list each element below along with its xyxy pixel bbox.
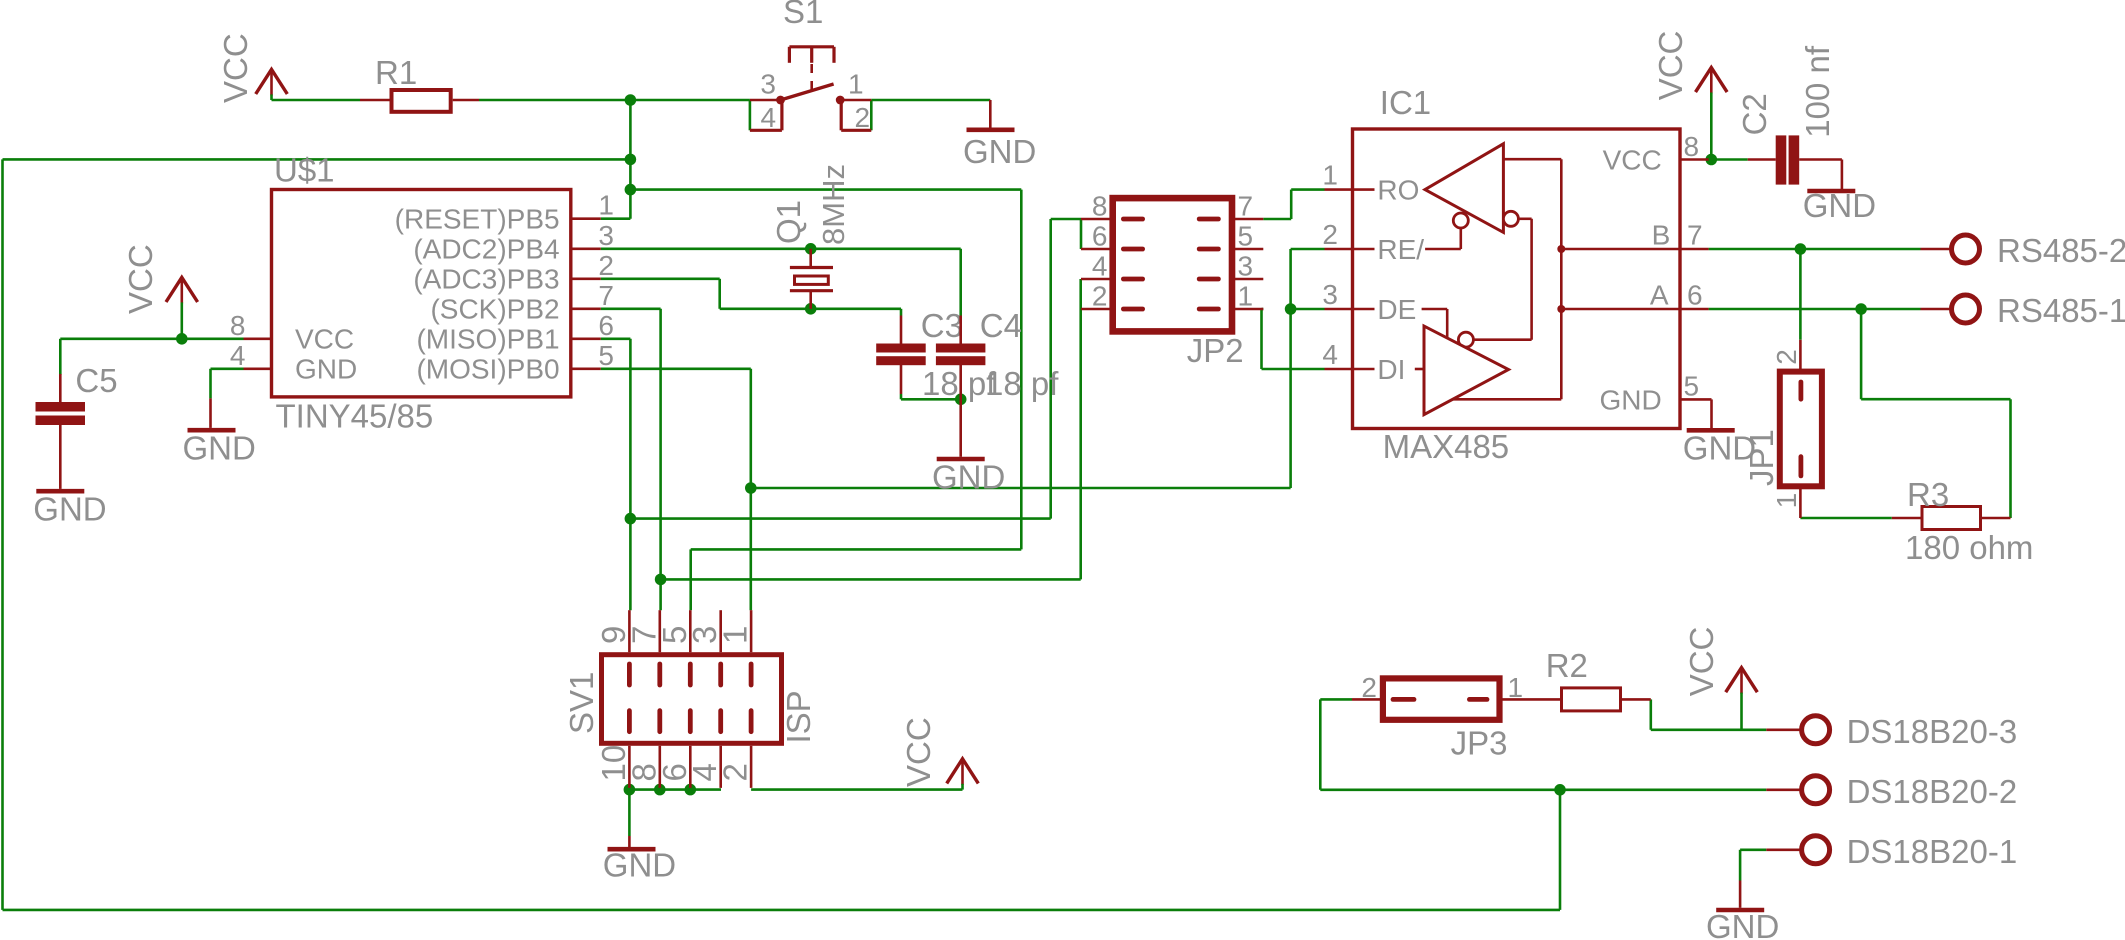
wire bottom riser x1560 (1559, 790, 1562, 910)
svg-text:2: 2 (855, 102, 871, 133)
ground C3 C4 (959, 399, 962, 457)
wire PB2 SCK down (601, 307, 661, 310)
MAX485 receiver triangle (1425, 144, 1503, 233)
MAX485 DI link (1415, 368, 1424, 371)
wire RE DE vertical (1289, 249, 1292, 488)
pad DS18B20-1 (1766, 848, 1801, 851)
wire MOSI row y488 to RE/DE (751, 487, 1291, 490)
svg-text:1: 1 (1771, 493, 1802, 509)
junction ISP gnd 3 (685, 784, 697, 796)
wire C3 bottom to GND junction (900, 394, 903, 399)
svg-text:GND: GND (963, 133, 1036, 170)
svg-text:GND: GND (295, 354, 357, 385)
svg-text:6: 6 (598, 310, 614, 341)
wire U$1 pin4 to GND (211, 367, 244, 370)
SV1 bottom pin x629 (628, 746, 631, 788)
svg-text:8: 8 (1092, 191, 1108, 222)
svg-text:3: 3 (1322, 279, 1338, 310)
SV1 top pin x720 (719, 610, 722, 652)
svg-text:MAX485: MAX485 (1383, 428, 1510, 465)
svg-text:ISP: ISP (780, 690, 817, 743)
wire ISP pin2 to VCC (751, 788, 962, 791)
wire R2 to VCC DS3 row (1650, 699, 1653, 729)
svg-text:5: 5 (598, 340, 614, 371)
ground S1 (989, 100, 992, 128)
jumper JP3 (1352, 698, 1383, 701)
junction A (1855, 303, 1867, 315)
wire B net to RS485-2 (1709, 248, 1921, 251)
U$1 left pin stubs (244, 337, 272, 340)
svg-text:GND: GND (1803, 187, 1876, 224)
svg-text:5: 5 (1684, 371, 1700, 402)
svg-text:DS18B20-1: DS18B20-1 (1847, 833, 2018, 870)
junction crystal bottom (805, 303, 817, 315)
wire RESET to ISP pin5 (689, 549, 692, 610)
svg-text:R1: R1 (375, 54, 417, 91)
VCC symbol 3 (1696, 68, 1728, 93)
wire VCC2 to U$1 pin8 (60, 337, 243, 340)
SV1 bottom pin x659 (658, 746, 661, 788)
svg-text:GND: GND (1599, 384, 1661, 415)
svg-text:VCC: VCC (217, 33, 254, 103)
jumper JP1 (1799, 340, 1802, 372)
switch S1 (789, 45, 834, 48)
junction ISP gnd 2 (654, 784, 666, 796)
svg-text:2: 2 (1322, 219, 1338, 250)
svg-text:R3: R3 (1907, 476, 1949, 513)
JP2 left pin y249 (1081, 248, 1113, 251)
MAX485 driver triangle (1424, 326, 1509, 415)
junction top at x630 (625, 94, 637, 106)
wire VCC to R1 (272, 99, 361, 102)
junction C3 C4 GND (955, 394, 967, 406)
wire SCK row y579 to JP2 4/2 (661, 578, 1081, 581)
wire U$1 pin1 stub join (601, 217, 631, 220)
wire left long net y159 (3, 158, 631, 161)
junction crystal top (805, 243, 817, 255)
wire JP2 pin8-pin6 tie (1080, 219, 1083, 249)
wire crystal bottom row (720, 307, 901, 310)
svg-text:SV1: SV1 (563, 672, 600, 734)
wire JP2 pins8-6 vertical (1049, 219, 1052, 519)
svg-text:1: 1 (1322, 160, 1338, 191)
wire JP2 pins4-2 vertical (1079, 279, 1082, 579)
svg-text:GND: GND (603, 847, 676, 884)
SV1 bottom pin x751 (750, 746, 753, 788)
wire A loop to R3 (1860, 309, 1863, 399)
svg-text:C5: C5 (75, 362, 117, 399)
svg-text:RS485-2: RS485-2 (1997, 232, 2125, 269)
svg-text:R2: R2 (1546, 647, 1588, 684)
svg-text:DS18B20-2: DS18B20-2 (1847, 773, 2018, 810)
JP2 right pin y279 (1232, 278, 1263, 281)
svg-text:1: 1 (848, 69, 864, 100)
svg-text:2: 2 (598, 250, 614, 281)
MAX485 left stub y369 (1325, 368, 1353, 371)
svg-text:DI: DI (1377, 354, 1405, 385)
wire B to JP1 pin2 (1799, 249, 1802, 340)
svg-text:Q1: Q1 (770, 200, 807, 244)
wire MISO row y518 to JP2 8/6 (630, 517, 1050, 520)
MAX485 left stub y309 (1325, 308, 1353, 311)
svg-text:B: B (1652, 220, 1671, 251)
svg-text:5: 5 (1238, 221, 1254, 252)
connector JP2 (1113, 198, 1232, 331)
MAX485 internal dot B (1557, 245, 1565, 253)
VCC symbol 1 (256, 69, 288, 94)
SV1 top pin x629 (628, 610, 631, 652)
junction B (1795, 243, 1807, 255)
IC U$1 TINY45/85 (272, 190, 571, 397)
JP2 right pin y309 (1232, 308, 1263, 311)
svg-text:C4: C4 (980, 307, 1022, 344)
svg-text:A: A (1650, 280, 1669, 311)
MAX485 left stub y249 (1325, 248, 1353, 251)
JP2 left pin y279 (1081, 278, 1113, 281)
wire S1 pin2 to GND (871, 99, 990, 102)
MAX485 DE link (1422, 308, 1448, 311)
svg-text:GND: GND (33, 491, 106, 528)
svg-text:JP2: JP2 (1187, 332, 1244, 369)
MAX485 interior pin dashes (1353, 188, 1375, 191)
wire DS18B20-2 row (1320, 788, 1766, 791)
crystal Q1 (809, 249, 812, 267)
ground C2 (1807, 189, 1855, 194)
wire RESET vertical x630 (629, 100, 632, 219)
svg-text:VCC: VCC (1652, 31, 1689, 101)
wire RESET y190 to x1021 (630, 188, 1021, 191)
svg-text:6: 6 (1687, 280, 1703, 311)
junction MAX485 VCC (1706, 154, 1718, 166)
JP2 left pin y219 (1081, 218, 1113, 221)
IC1 MAX485 (1353, 129, 1681, 429)
ground DS18B20 (1739, 881, 1742, 908)
svg-text:2: 2 (1092, 281, 1108, 312)
ground U$1 pin4 (209, 398, 212, 428)
svg-text:JP1: JP1 (1743, 429, 1780, 486)
JP2 left pin y309 (1081, 308, 1113, 311)
JP2 right pin y219 (1232, 218, 1263, 221)
VCC symbol 5 DS18B20 (1726, 668, 1758, 693)
junction DS2 (1554, 784, 1566, 796)
MAX485 A line (1561, 308, 1680, 311)
resistor R1 (360, 99, 390, 102)
svg-text:VCC: VCC (900, 717, 937, 787)
svg-text:(RESET)PB5: (RESET)PB5 (395, 204, 560, 235)
svg-text:1: 1 (598, 190, 614, 221)
svg-text:8: 8 (230, 310, 246, 341)
U$1 right pin stub y338 (571, 337, 601, 340)
U$1 right pin stub y248 (571, 248, 601, 251)
MAX485 left stub y189 (1325, 188, 1353, 191)
wire MAX485 VCC node (1709, 158, 1748, 161)
wire RESET row y549 (691, 548, 1022, 551)
svg-text:RO: RO (1377, 175, 1419, 206)
svg-text:TINY45/85: TINY45/85 (276, 398, 434, 435)
VCC symbol 4 ISP (947, 759, 979, 784)
pad DS18B20-2 (1766, 788, 1801, 791)
svg-text:GND: GND (183, 430, 256, 467)
junction MOSI y488 (745, 482, 757, 494)
svg-text:U$1: U$1 (274, 152, 335, 189)
svg-text:VCC: VCC (1683, 627, 1720, 697)
MAX485 B line (1561, 248, 1680, 251)
junction ISP gnd 1 (624, 784, 636, 796)
svg-text:VCC: VCC (1603, 145, 1662, 176)
junction x630 y159 (625, 154, 637, 166)
wire to DE pin (1291, 308, 1325, 311)
svg-text:1: 1 (1508, 672, 1524, 703)
svg-text:2: 2 (1771, 349, 1802, 365)
SV1 bottom pin x720 (719, 746, 722, 788)
U$1 right pin stub y278 (571, 277, 601, 280)
resistor R2 (1622, 698, 1651, 701)
junction x630 y190 (625, 184, 637, 196)
wire C4 top drop (959, 249, 962, 316)
svg-text:2: 2 (717, 763, 754, 781)
U$1 right pin stub y368 (571, 367, 601, 370)
JP2 right pin y249 (1232, 248, 1263, 251)
wire RESET vertical x1021 (1020, 190, 1023, 550)
junction SCK y579 (655, 574, 667, 586)
svg-text:4: 4 (230, 340, 246, 371)
SV1 top pin x690 (689, 610, 692, 652)
svg-text:(ADC2)PB4: (ADC2)PB4 (413, 234, 559, 265)
capacitor C3 (900, 316, 903, 344)
wire JP2 pin8 link (1051, 218, 1081, 221)
svg-text:3: 3 (598, 220, 614, 251)
U$1 right pin stub y308 (571, 307, 601, 310)
svg-text:RE/: RE/ (1377, 234, 1424, 265)
junction DE node (1285, 303, 1297, 315)
svg-text:6: 6 (1092, 221, 1108, 252)
junction VCC2 (176, 333, 188, 345)
svg-text:3: 3 (1238, 251, 1254, 282)
wire S1 pin4 drop (749, 100, 752, 130)
wire PB3 jog (601, 277, 720, 280)
wire R1 to S1 / RESET net top (479, 99, 750, 102)
wire DS18B20-1 to GND (1740, 848, 1766, 851)
capacitor C5 (59, 374, 62, 402)
svg-text:180 ohm: 180 ohm (1905, 529, 2033, 566)
svg-text:8MHz: 8MHz (816, 164, 851, 245)
pad RS485-1 (1921, 308, 1952, 311)
svg-text:3: 3 (760, 69, 776, 100)
svg-text:GND: GND (1706, 908, 1779, 940)
ground C5 (36, 489, 84, 494)
svg-text:8: 8 (1684, 131, 1700, 162)
wire JP2 pin1 to DI (1262, 308, 1264, 311)
capacitor C4 (959, 316, 962, 344)
wire ISP GND row (629, 788, 721, 791)
SV1 top pin x659 (658, 610, 661, 652)
MAX485 enable route (1503, 211, 1518, 226)
wire ISP GND drop (628, 790, 631, 836)
svg-text:(ADC3)PB3: (ADC3)PB3 (413, 264, 559, 295)
svg-text:RS485-1: RS485-1 (1997, 292, 2125, 329)
svg-text:4: 4 (761, 102, 777, 133)
wire PB0 MOSI down (601, 367, 751, 370)
svg-text:JP3: JP3 (1451, 725, 1508, 762)
wire far-left vertical (1, 159, 4, 910)
svg-text:7: 7 (1238, 191, 1254, 222)
wire C3 top drop (900, 309, 903, 316)
svg-text:4: 4 (1092, 251, 1108, 282)
wire JP3 pin2 loop (1320, 698, 1352, 701)
svg-text:2: 2 (1361, 672, 1377, 703)
U$1 right pin stub y218 (571, 217, 601, 220)
svg-text:C3: C3 (921, 307, 963, 344)
svg-text:(SCK)PB2: (SCK)PB2 (430, 294, 559, 325)
MAX485 right stubs (1680, 158, 1709, 161)
svg-text:7: 7 (598, 280, 614, 311)
svg-text:(MOSI)PB0: (MOSI)PB0 (416, 354, 559, 385)
SV1 top pin x751 (750, 610, 753, 652)
MAX485 pin5 GND jog (1680, 398, 1712, 401)
wire bottom long (3, 909, 1561, 912)
MAX485 RE bubble (1453, 213, 1468, 228)
svg-text:IC1: IC1 (1380, 84, 1431, 121)
pad RS485-2 (1921, 248, 1952, 251)
SV1 bottom pin x690 (689, 746, 692, 788)
ground SV1 (628, 836, 631, 847)
svg-text:VCC: VCC (122, 244, 159, 314)
wire C5 top drop (59, 339, 62, 375)
svg-text:VCC: VCC (295, 324, 354, 355)
pin header SV1 ISP (602, 655, 782, 744)
svg-text:100 nf: 100 nf (1799, 45, 1836, 138)
svg-text:7: 7 (1687, 220, 1703, 251)
svg-text:1: 1 (717, 626, 754, 644)
svg-text:S1: S1 (783, 0, 823, 30)
svg-text:1: 1 (1238, 281, 1254, 312)
wire to RE pin (1291, 248, 1325, 251)
pad DS18B20-3 (1766, 728, 1801, 731)
junction MISO y518 (625, 513, 637, 525)
svg-text:(MISO)PB1: (MISO)PB1 (416, 324, 559, 355)
wire JP1 pin1 to R3 (1800, 517, 1891, 520)
capacitor C2 (1748, 158, 1776, 161)
svg-text:GND: GND (932, 459, 1005, 496)
wire JP2 pin7 to RO (1263, 218, 1291, 221)
svg-text:4: 4 (1322, 339, 1338, 370)
svg-text:C2: C2 (1736, 93, 1773, 135)
MAX485 receiver output route (1503, 158, 1561, 161)
svg-text:18 pf: 18 pf (985, 365, 1059, 402)
wire PB4 to crystal and C4 (601, 248, 961, 251)
VCC symbol 2 (166, 277, 198, 302)
wire PB1 MISO down (601, 337, 631, 340)
svg-text:DS18B20-3: DS18B20-3 (1847, 713, 2018, 750)
svg-text:DE: DE (1377, 294, 1416, 325)
resistor R3 (1892, 517, 1921, 520)
wire A net to RS485-1 (1709, 308, 1921, 311)
MAX485 internal dot A (1557, 305, 1565, 313)
